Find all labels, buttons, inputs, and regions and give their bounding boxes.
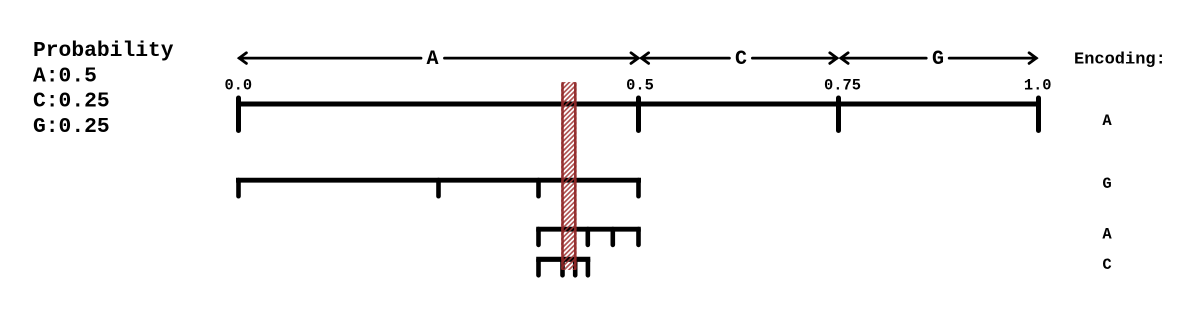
level 2 tick 0.0: [236, 180, 241, 196]
level 4 tick 0.421875: [573, 260, 578, 276]
level 3 interval line (after G): [536, 227, 641, 232]
svg-text:C:0.25: C:0.25: [33, 90, 110, 114]
level 2 interval line (after A): [236, 178, 641, 183]
svg-text:G: G: [1102, 175, 1111, 193]
level 3 tick 0.4375: [585, 229, 590, 245]
svg-text:A: A: [1102, 112, 1112, 130]
svg-text:G:0.25: G:0.25: [33, 115, 110, 139]
svg-text:A:0.5: A:0.5: [33, 64, 97, 88]
main tick 0.5: [636, 98, 641, 131]
svg-text:1.0: 1.0: [1024, 77, 1052, 95]
main number line: [236, 102, 1041, 107]
arrow interval G: [841, 53, 1036, 64]
level 2 tick 0.375: [536, 180, 541, 196]
arrow interval C: [641, 53, 837, 64]
arrow interval A: [239, 53, 638, 64]
hatched highlight band fill: [556, 60, 582, 288]
level 2 tick 0.25: [436, 180, 441, 196]
svg-text:A: A: [1102, 226, 1112, 244]
level 3 tick 0.375: [536, 229, 541, 245]
level 4 tick 0.40625: [560, 260, 565, 276]
svg-text:0.75: 0.75: [824, 77, 861, 95]
hatched band right edge: [574, 83, 577, 268]
level 2 tick 0.5: [636, 180, 641, 196]
probability legend text: [33, 39, 174, 139]
level 4 tick 0.375: [536, 260, 541, 276]
main tick 1.0: [1036, 98, 1041, 131]
svg-text:C: C: [1102, 256, 1111, 274]
level 4 interval line (after A): [536, 257, 590, 262]
main tick 0.75: [836, 98, 841, 131]
level 3 tick 0.5: [636, 229, 641, 245]
level 3 tick 0.46875: [610, 229, 615, 245]
svg-text:G: G: [932, 48, 944, 71]
svg-text:A: A: [426, 48, 438, 71]
svg-text:0.0: 0.0: [224, 77, 252, 95]
hatched band left edge: [561, 83, 564, 268]
svg-text:C: C: [735, 48, 747, 71]
main tick 0.0: [236, 98, 241, 131]
svg-text:Encoding:: Encoding:: [1074, 51, 1166, 70]
level 4 tick 0.4375: [586, 260, 591, 276]
svg-text:Probability: Probability: [33, 39, 174, 63]
svg-text:0.5: 0.5: [626, 77, 654, 95]
